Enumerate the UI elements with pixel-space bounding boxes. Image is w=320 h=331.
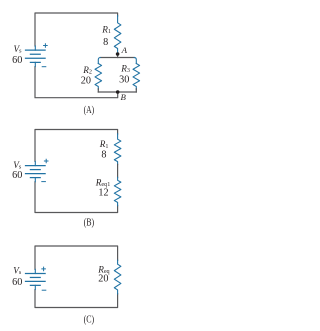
svg-text:B: B (121, 92, 127, 102)
svg-text:(B): (B) (84, 216, 95, 228)
svg-text:8: 8 (103, 37, 108, 48)
svg-text:60: 60 (12, 277, 22, 288)
svg-text:12: 12 (98, 188, 108, 199)
svg-text:30: 30 (119, 74, 129, 85)
svg-text:60: 60 (12, 170, 22, 181)
svg-text:20: 20 (81, 75, 91, 86)
svg-text:(A): (A) (84, 104, 95, 116)
svg-text:(C): (C) (84, 313, 95, 325)
svg-text:8: 8 (101, 150, 106, 161)
svg-text:20: 20 (98, 274, 108, 285)
svg-text:60: 60 (12, 55, 22, 66)
svg-text:A: A (121, 45, 128, 55)
